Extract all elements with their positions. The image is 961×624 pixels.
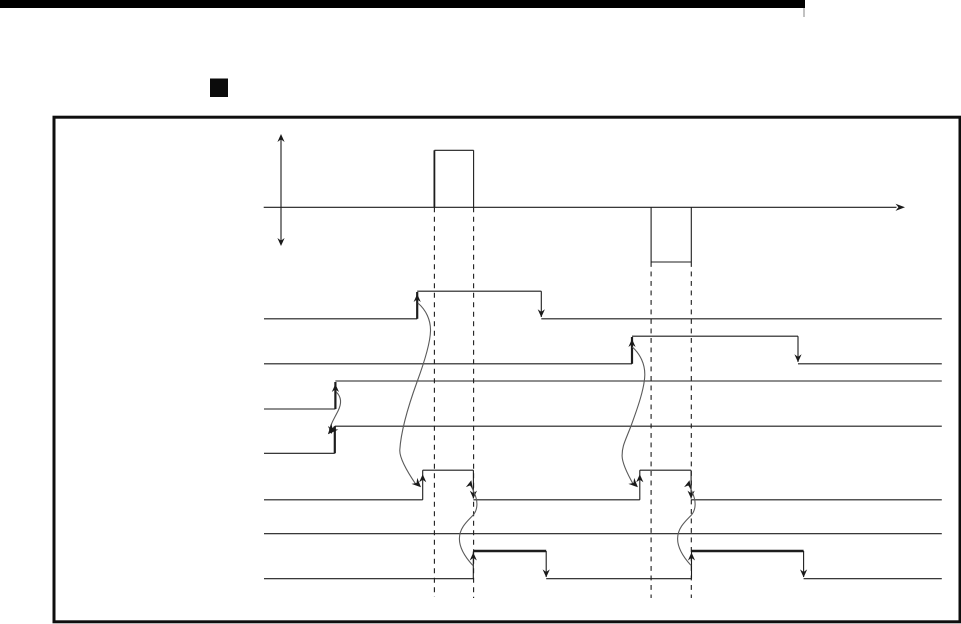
signal 3 waveform [264,381,942,409]
signal 3 rise arrow [332,384,339,392]
signal 5 rise arrow 2 [636,474,643,482]
signal 6 waveform [264,533,942,535]
signal 7 waveform [264,551,942,579]
section bullet square [210,79,228,98]
dashed guide line 2 [473,207,475,598]
signal 4 waveform [264,426,942,453]
signal 2 waveform [264,336,942,364]
dashed guide line 1 [433,207,435,597]
signal 7 fall arrow 2 [800,569,807,577]
signal 5 rise arrow 1 [419,474,426,482]
header tick mark [803,8,805,17]
signal 4 rise arrow [328,426,335,434]
signal 1 waveform [264,291,942,319]
signal 7 rise arrow 1 [470,553,477,561]
reverse velocity pulse [651,207,691,262]
signal 1 rise arrow [414,294,421,302]
signal 7 fall arrow 1 [543,569,550,577]
causal curve signal1 to signal5 [400,303,431,490]
diagram frame [54,117,960,622]
dashed guide line 4 [690,262,692,598]
causal curve signal7 to signal5 fall 2 [678,479,696,565]
dashed guide line 3 [650,262,652,598]
causal curve signal3 to signal4 [324,392,340,437]
signal 5 fall arrow 1 [470,491,477,499]
signal 5 waveform [264,470,942,500]
page header bar [0,0,805,8]
forward velocity pulse [434,150,473,207]
speed double arrow [277,134,284,246]
signal 5 fall arrow 2 [688,491,695,499]
signal 2 fall arrow [794,354,801,362]
time axis [264,204,905,211]
signal 7 rise arrow 2 [688,553,695,561]
causal curve signal7 to signal5 fall 1 [459,479,477,565]
signal 1 fall arrow [538,309,545,317]
signal 2 rise arrow [628,339,635,347]
causal curve signal2 to signal5 [622,347,645,490]
